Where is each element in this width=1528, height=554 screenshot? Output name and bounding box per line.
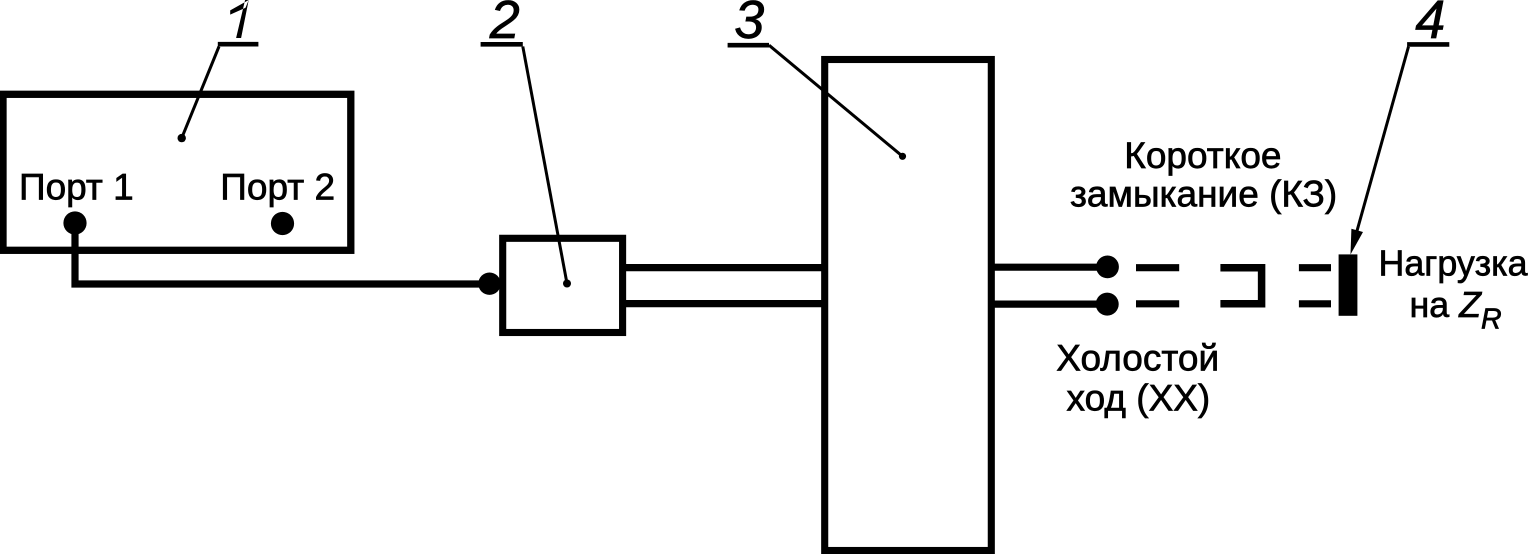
svg-text:замыкание (КЗ): замыкание (КЗ) [1070, 174, 1337, 215]
svg-text:Короткое: Короткое [1124, 135, 1281, 176]
svg-text:Порт 1: Порт 1 [19, 167, 134, 208]
svg-text:Порт 2: Порт 2 [220, 167, 335, 208]
svg-text:ход (ХХ): ход (ХХ) [1067, 378, 1211, 419]
svg-text:Холостой: Холостой [1056, 338, 1219, 379]
svg-text:Нагрузка: Нагрузка [1379, 244, 1528, 284]
svg-text:3: 3 [734, 0, 764, 50]
